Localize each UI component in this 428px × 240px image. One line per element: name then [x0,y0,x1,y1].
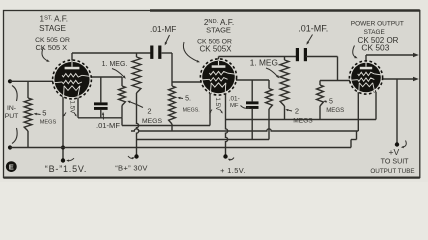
svg-text:5: 5 [42,109,46,118]
svg-text:.01-MF: .01-MF [96,121,120,130]
svg-text:“B+” 30V: “B+” 30V [115,164,148,173]
wire C1 to V2 grid [162,53,201,82]
resistor R7 2 MEGS (V2 screen) [266,80,273,140]
svg-text:TO SUIT: TO SUIT [381,158,410,166]
wire bus B- common (bottom, steps up to V3 filament) [10,131,357,148]
wire +V riser (screen line to +V terminal) [396,79,398,145]
label R7 2 MEGS with arrow [285,107,313,125]
input bracket [12,86,17,144]
wire C3 to V3 grid [306,57,350,81]
svg-text:STAGE: STAGE [39,24,66,33]
wire V1 negative filament lead to B- terminal [62,90,64,161]
wire V2 plate riser and plate line stage 2 [219,57,297,63]
capacitor C1 .01-MF (coupling V1 to V2) [150,46,161,59]
node input terminal (bottom) [8,145,12,149]
svg-text:+ 1.5V.: + 1.5V. [220,166,246,175]
svg-text:1.5V: 1.5V [68,100,75,114]
arrow output plate lead [413,53,419,58]
svg-text:MEGS.: MEGS. [183,108,200,114]
svg-text:.01-: .01- [229,96,240,103]
svg-text:CK 503: CK 503 [361,42,389,52]
label V2 filament 1.5V with arrows [209,97,222,113]
label C4 .01-MF with arrow [229,96,251,110]
label stage 1 title with arrow to V1 [35,15,70,62]
svg-text:MEGS: MEGS [326,107,344,114]
resistor R5 1 MEG (V2 plate load) [280,57,289,120]
resistor R3 5 MEGS (V2 grid return) [169,82,176,131]
node terminal +V [395,141,406,149]
label R5 1. MEG. with arrow [250,58,280,79]
wire bus grid-return (hops B+ riser and R7 lead) [131,129,358,131]
tube V3 CK502 (power output stage) [349,61,382,94]
svg-text:POWER OUTPUT: POWER OUTPUT [351,21,404,28]
svg-text:5: 5 [329,99,333,106]
svg-text:OUTPUT TUBE: OUTPUT TUBE [370,168,414,175]
svg-text:MEGS: MEGS [40,120,57,126]
svg-text:STAGE: STAGE [364,29,385,36]
node terminal +1.5V [223,154,234,161]
resistor R1 5 MEGS (V1 grid return) [24,81,32,147]
node junction V1 filament on B- bus [61,146,65,150]
svg-text:CK 505X: CK 505X [199,45,232,54]
svg-text:1. MEG.: 1. MEG. [250,58,280,68]
wire V2 screen line [236,79,269,81]
wire bus B+ (to R7 screen feed) [137,139,270,141]
arrow output screen lead [413,77,419,82]
svg-text:2: 2 [295,107,299,116]
label C2 .01-MF with arrow [96,112,120,130]
svg-text:“B-”1.5V.: “B-”1.5V. [45,164,87,174]
svg-text:2: 2 [147,107,151,116]
svg-text:.01-MF.: .01-MF. [298,24,328,34]
border frame of schematic (decorative) [4,11,420,178]
svg-text:1ST. A.F.: 1ST. A.F. [40,15,68,24]
svg-text:IN-: IN- [7,105,16,112]
label R4 2 MEGS with arrow [127,101,162,125]
resistor R6 5 MEGS (V3 grid return) [317,81,324,120]
label B- 1.5V [45,164,87,174]
label stage 3 title with arrow to V3 [351,21,404,59]
node input terminal (top) [8,79,12,83]
svg-text:1. MEG.: 1. MEG. [102,61,128,68]
wire V3 plate riser and output line [366,55,415,62]
wire V3 screen output line [382,78,415,80]
label +1.5V [220,166,246,175]
label R2 1. MEG. with arrow [102,61,128,79]
label R3 5. MEGS. with arrow [177,96,199,114]
wire grid line stage 1 (input to V1 grid) [10,80,54,82]
wire +1.5V riser (V2 filament to +1.5V terminal, hops buses) [226,92,228,155]
wire B+ feed riser (R2 bottom to B+ terminal, hops filament and B- buses) [137,93,139,155]
label C3 .01-MF. with arrow [298,24,328,45]
svg-text:E: E [9,162,14,171]
magazine logo circled E [6,161,17,172]
wire filament supply line (+1.5V riser to V3 filament) [226,92,377,120]
wire V1 screen line [91,76,122,78]
svg-text:MF: MF [230,103,239,109]
wire V1 plate riser and plate line stage 1 [72,53,152,63]
svg-text:STAGE: STAGE [206,26,231,35]
svg-text:MEGS: MEGS [142,118,162,125]
label INPUT [5,105,19,120]
capacitor C4 .01-MF (V2 screen bypass) [246,80,259,140]
label stage 2 title with arrow to V2 [183,18,234,62]
tube V2 CK505 (2nd A.F. stage) [200,59,236,95]
label C1 .01-MF with arrow [150,24,176,45]
node terminal B+ 30V [128,154,139,159]
svg-text:1.5V: 1.5V [214,97,221,111]
svg-text:MEGS: MEGS [293,118,313,125]
label R1 5 MEGS with arrow [34,109,57,126]
node terminal B- 1.5V [61,158,74,163]
label +V TO SUIT OUTPUT TUBE [370,147,414,175]
svg-text:CK 505 X: CK 505 X [35,43,67,52]
svg-text:PUT: PUT [5,113,19,120]
capacitor C2 .01-MF (V1 screen bypass) [94,77,108,118]
label V1 filament 1.5V with arrows [63,100,76,116]
svg-text:5.: 5. [185,96,191,103]
capacitor C3 .01-MF. (coupling V2 to V3) [296,48,307,61]
tube V1 CK505 (1st A.F. stage) [53,60,92,99]
label R6 5 MEGS with arrow [323,99,344,115]
wire V3 negative filament lead [357,92,359,131]
svg-text:.01-MF: .01-MF [150,24,176,34]
resistor R4 2 MEGS (V1 screen) [119,77,126,118]
resistor R2 1 MEG (V1 plate load) [132,53,141,93]
wire filament line V1 to V2 (steps down, +1.5V side) [78,90,210,126]
svg-text:+V: +V [389,147,400,157]
label B+ 30V [115,164,148,173]
